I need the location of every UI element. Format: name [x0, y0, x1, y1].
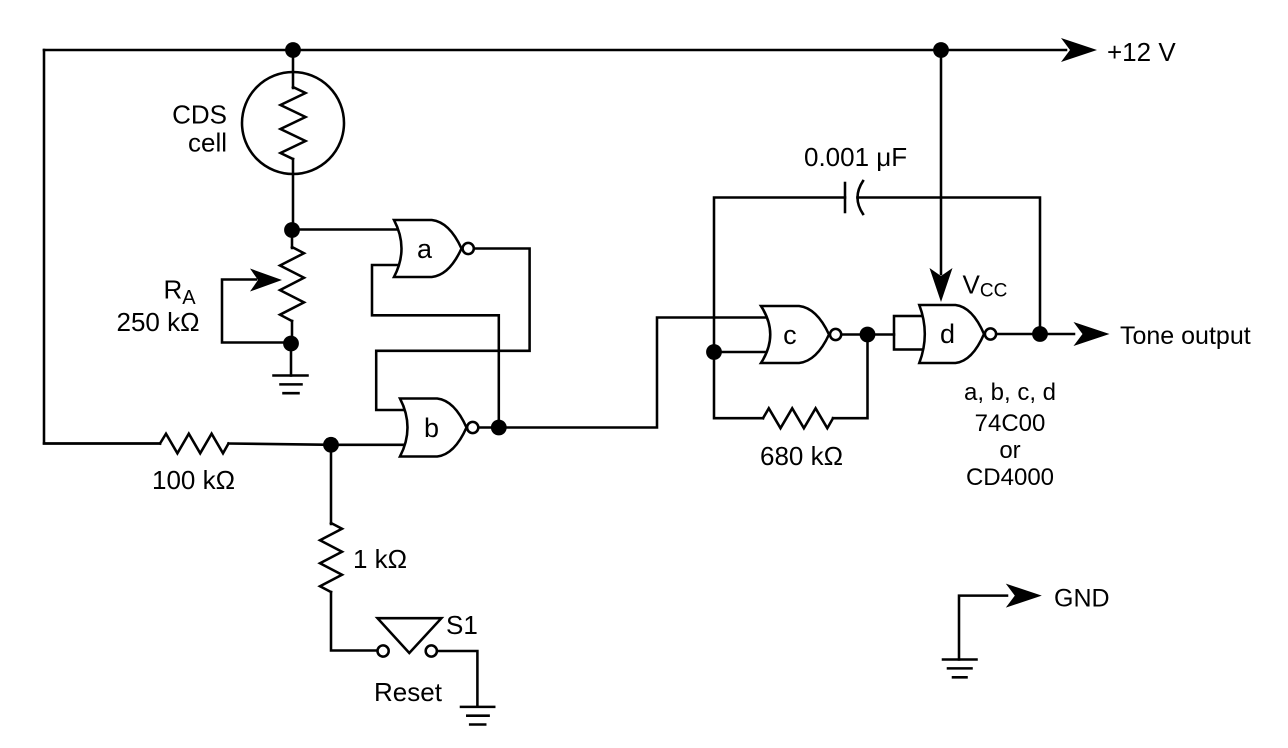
wire RA bottom [291, 321, 294, 344]
switch S1 triangle [378, 618, 442, 653]
wire gate d output [996, 333, 1074, 336]
capacitor C right plate [858, 181, 864, 214]
gate d body [919, 305, 984, 363]
capacitor C left plate [844, 183, 847, 212]
wire feedback b-output to a-input [372, 265, 499, 428]
switch S1 left contact [378, 645, 389, 656]
svg-text:a: a [417, 234, 433, 264]
GND arrowhead [1006, 584, 1042, 608]
CDS cell circle [242, 72, 344, 174]
wire gate c output to gate d [842, 333, 895, 336]
svg-text:680 kΩ: 680 kΩ [760, 441, 843, 471]
wire CDS bottom to node [292, 159, 295, 230]
gate d bubble [985, 328, 996, 339]
svg-text:CDS: CDS [172, 100, 227, 130]
junction c output node [860, 327, 876, 343]
ground under GND stub [943, 660, 977, 678]
svg-text:b: b [424, 413, 439, 443]
svg-text:a, b, c, d: a, b, c, d [964, 379, 1056, 406]
svg-text:1 kΩ: 1 kΩ [353, 544, 407, 574]
gate c body [761, 306, 829, 363]
junction cap-c-680k node [706, 344, 722, 360]
Vcc arrowhead [930, 268, 953, 302]
wire node to gate a upper input [292, 228, 402, 231]
svg-text:+12 V: +12 V [1107, 37, 1176, 67]
gate a body [394, 220, 462, 277]
svg-text:cell: cell [188, 128, 227, 158]
output arrow Tone [1074, 322, 1110, 346]
junction gate b output [491, 420, 507, 436]
junction CDS-RA node [284, 222, 300, 238]
wire feedback a-output to b-input [376, 249, 529, 411]
svg-text:74C00: 74C00 [975, 410, 1046, 437]
wire GND stub [959, 596, 1007, 660]
wire capacitor left branch [714, 198, 845, 353]
switch S1 right contact [426, 645, 437, 656]
wire junction down to 1k [330, 445, 333, 524]
junction d output node [1032, 326, 1048, 342]
wire 680k right branch [833, 335, 868, 419]
junction 100k node [323, 437, 339, 453]
wire 100k left segment (on left rail y) [44, 442, 160, 445]
svg-text:100 kΩ: 100 kΩ [152, 465, 235, 495]
gate c bubble [830, 329, 841, 340]
svg-text:c: c [783, 320, 797, 350]
wire 100k to junction [229, 444, 332, 445]
svg-text:VCC: VCC [963, 270, 1008, 302]
svg-text:Tone output: Tone output [1120, 322, 1251, 350]
wire 680k left branch [714, 352, 763, 418]
svg-text:250 kΩ: 250 kΩ [117, 307, 200, 337]
resistor 100k zigzag [160, 434, 229, 454]
junction CDS top [285, 42, 301, 58]
svg-text:S1: S1 [446, 610, 478, 640]
wire CDS top stub [292, 50, 295, 88]
gate a bubble [463, 243, 474, 254]
svg-text:or: or [999, 437, 1020, 464]
resistor RA zigzag [280, 247, 304, 321]
gate d tied-input box [894, 316, 925, 350]
svg-text:RA: RA [164, 274, 197, 309]
wire junction to gate b lower input [331, 444, 408, 447]
ground under RA [274, 344, 308, 393]
wire +12V top rail [44, 49, 1066, 52]
wire c lower input [714, 351, 768, 354]
wire capacitor right branch [858, 198, 1041, 335]
svg-text:CD4000: CD4000 [966, 464, 1054, 491]
CDS photoresistor zigzag [281, 87, 306, 159]
svg-text:0.001 μF: 0.001 μF [804, 142, 907, 172]
wire gate b output to gate c upper input [479, 318, 769, 428]
wire Vcc drop [940, 50, 943, 274]
wire 1k to switch S1 [331, 592, 377, 651]
wire node to RA top [291, 230, 294, 248]
junction Vcc tap [933, 42, 949, 58]
svg-text:Reset: Reset [374, 677, 443, 707]
svg-text:GND: GND [1054, 585, 1110, 613]
wire S1 to ground [437, 651, 477, 706]
wire left rail [44, 50, 160, 444]
ground under S1 [461, 707, 494, 725]
gate b body [400, 399, 467, 457]
junction RA bottom [283, 336, 299, 352]
gate b bubble [467, 422, 478, 433]
resistor 680k zigzag [763, 408, 833, 428]
power arrow +12V [1061, 38, 1097, 62]
resistor 1k zigzag [320, 523, 342, 592]
svg-text:d: d [940, 319, 955, 349]
RA wiper arrowhead [250, 269, 282, 292]
RA wiper arm wire [222, 280, 290, 343]
